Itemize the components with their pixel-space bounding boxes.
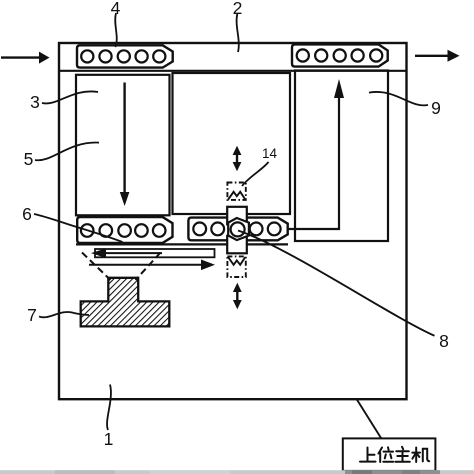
hexagonal holder with roller (node of 8) [228, 218, 249, 240]
位 [379, 448, 383, 454]
pusher 14 upper position (dash-dot box) [227, 183, 245, 200]
roller conveyor unit 6 (bottom left) [77, 217, 172, 243]
svg-text:5: 5 [24, 149, 34, 169]
leader line for label 4 [115, 13, 117, 47]
shuttle bar with left transfer arrow [91, 248, 215, 258]
lift table block 7 (hatched) [81, 278, 170, 327]
inbound arrow (left) [1, 52, 50, 64]
host computer box (上位主机) [343, 438, 436, 471]
connector line to host computer box [357, 399, 381, 438]
right transfer arrow [89, 260, 215, 271]
leader line for label 3 [42, 91, 98, 103]
主 [402, 447, 403, 450]
left chamber box 3/5 [76, 75, 170, 216]
svg-text:9: 9 [431, 98, 441, 118]
svg-text:2: 2 [233, 0, 243, 18]
svg-text:3: 3 [30, 92, 40, 112]
svg-text:6: 6 [22, 204, 32, 224]
scanner gray band at bottom edge [0, 470, 474, 474]
roller conveyor unit (top right, outfeed) [292, 44, 388, 66]
lower double-headed arrow [233, 283, 242, 309]
svg-text:1: 1 [104, 429, 114, 449]
top strip bottom line [59, 70, 407, 72]
leader line for label 6 [34, 214, 123, 242]
main machine housing box 1 [59, 43, 407, 399]
middle chamber box 2 [173, 73, 291, 214]
svg-text:14: 14 [262, 146, 278, 161]
dashed guide line (left) [82, 253, 111, 281]
leader line for label 2 [237, 14, 239, 52]
rail line under bottom roller units [76, 243, 288, 245]
pusher 14 lower position (dash-dot box) [227, 256, 245, 277]
clamp upper support block [227, 207, 247, 225]
leader line for label 1 [107, 385, 111, 431]
host computer text 上位主机 (drawn strokes) [360, 447, 429, 462]
leader line for label 7 [39, 312, 89, 317]
downward flow arrow [120, 83, 130, 207]
leader line for label 8 [238, 231, 435, 336]
上 [367, 448, 369, 462]
leader line for label 9 [369, 92, 428, 105]
right chamber box 9 [295, 71, 388, 242]
upper double-headed arrow [233, 146, 242, 171]
leader line for label 14 [242, 162, 269, 186]
outbound arrow (right) [415, 50, 460, 62]
dashed guide line (right) [136, 253, 161, 281]
roller conveyor unit 4 (top left) [77, 45, 173, 67]
svg-text:7: 7 [27, 305, 37, 325]
leader line for label 5 [35, 143, 99, 161]
机 [412, 452, 420, 454]
svg-text:8: 8 [439, 331, 449, 351]
svg-text:4: 4 [111, 0, 121, 18]
clamp lower support block [227, 236, 247, 254]
roller conveyor unit 8 (bottom middle) [188, 218, 287, 241]
upward flow arrow with elbow [287, 79, 344, 229]
